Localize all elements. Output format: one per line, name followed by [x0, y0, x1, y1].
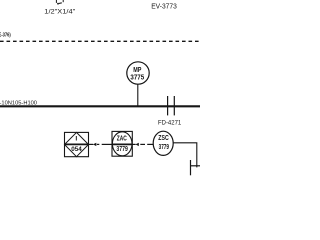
valve symbol (cut off at top edge): [56, 0, 63, 5]
wire: ZSC-3779 to valve stem switch: [173, 143, 197, 168]
svg-text:EV-3773: EV-3773: [151, 1, 177, 10]
svg-text:-10N105-H100: -10N105-H100: [0, 101, 37, 107]
valve stem limit switch (bottom right, cut off): [191, 160, 201, 175]
svg-text:054: 054: [71, 146, 82, 153]
svg-text:(E-376): (E-376): [0, 33, 11, 39]
instrument MP-3775: [127, 62, 149, 84]
svg-text:3779: 3779: [159, 144, 169, 151]
svg-text:FD-4271: FD-4271: [158, 119, 181, 126]
svg-text:ZAC: ZAC: [117, 135, 127, 142]
svg-text:I: I: [75, 135, 77, 142]
wire: dashed signal line E-376: [0, 40, 200, 42]
svg-text:3775: 3775: [130, 73, 144, 82]
wire: signal arrow into ZAC-3779 from ZSC-3779: [132, 143, 153, 146]
instrument ZSC-3779: [153, 131, 173, 155]
instrument ZAC-3779 (ellipse in box): [112, 131, 132, 156]
interlock logic I-054 (diamond in square): [64, 132, 89, 156]
pipe 10N105-H100: [0, 105, 200, 107]
svg-text:1/2"X1/4": 1/2"X1/4": [44, 9, 76, 16]
svg-text:3779: 3779: [116, 146, 128, 153]
svg-text:ZSC: ZSC: [158, 135, 168, 142]
wire: signal arrow into interlock from ZAC-3779: [89, 143, 113, 146]
orifice plate FD-4271: [168, 96, 175, 115]
wire: MP-3775 stem to pipe: [137, 84, 139, 106]
